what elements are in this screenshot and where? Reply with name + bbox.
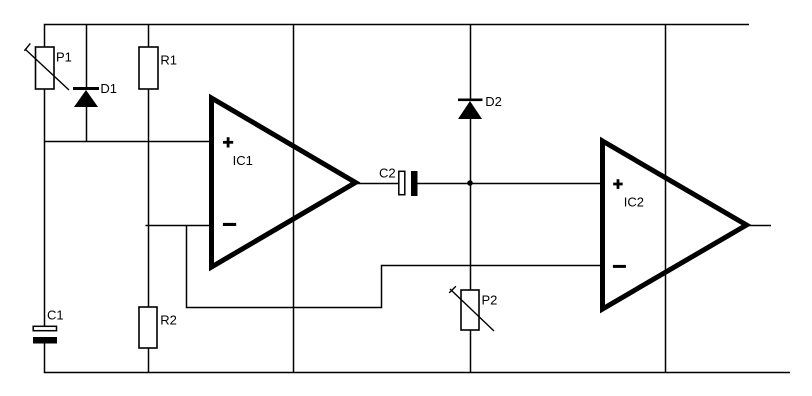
svg-text:R1: R1 bbox=[160, 52, 177, 67]
svg-text:IC1: IC1 bbox=[233, 153, 253, 168]
svg-text:C2: C2 bbox=[379, 165, 396, 180]
svg-text:P2: P2 bbox=[482, 293, 498, 308]
svg-text:D1: D1 bbox=[100, 81, 117, 96]
svg-text:R2: R2 bbox=[160, 312, 177, 327]
svg-text:C1: C1 bbox=[47, 307, 64, 322]
svg-text:D2: D2 bbox=[485, 94, 502, 109]
svg-text:IC2: IC2 bbox=[624, 194, 644, 209]
svg-text:P1: P1 bbox=[56, 49, 72, 64]
